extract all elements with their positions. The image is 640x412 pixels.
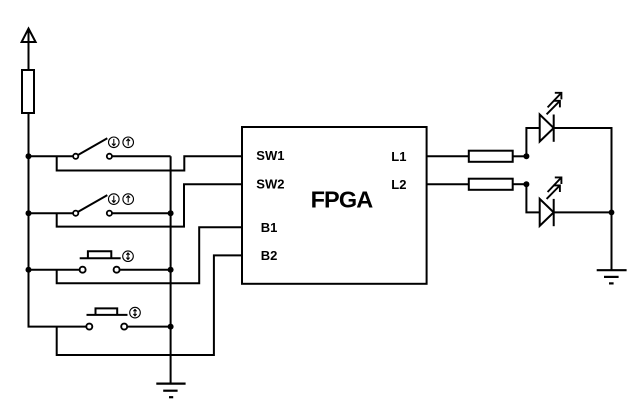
switch SW1 <box>73 138 112 159</box>
push button B1 <box>80 251 121 273</box>
led L1 diode <box>540 115 554 142</box>
node: LED2-right rail junction <box>609 210 615 216</box>
wire: LED2 anode dropper <box>526 184 539 212</box>
wire: LED1 anode riser <box>526 128 539 156</box>
svg-text:B1: B1 <box>261 220 278 235</box>
resistor R3 (L2 series) <box>469 179 513 190</box>
wire: B1 pin bypass <box>57 227 242 283</box>
icon: B2 press <box>130 307 141 318</box>
wire: L2 pin to resistor <box>427 183 469 185</box>
wire: ground rail <box>170 156 172 383</box>
svg-text:L1: L1 <box>391 149 406 164</box>
wire: SW2 row left <box>29 212 73 214</box>
svg-text:L2: L2 <box>391 177 406 192</box>
wire: SW1 output to ground rail <box>112 155 170 157</box>
icon: SW2 up position <box>123 194 134 205</box>
resistor R1 (pull-up) <box>22 70 34 113</box>
node: rail-B1 junction <box>26 267 32 273</box>
icon: LED1 emission arrows <box>547 93 562 115</box>
icon: SW1 down position <box>109 137 120 148</box>
node: LED2 anode junction <box>523 181 529 187</box>
icon: LED2 emission arrows <box>547 177 562 199</box>
svg-text:FPGA: FPGA <box>311 187 374 213</box>
wire: B2 output to ground rail <box>128 326 171 328</box>
wire: L1 pin to resistor <box>427 155 469 157</box>
node: rail-SW1 junction <box>26 153 32 159</box>
wire: resistor to LED2 anode <box>513 183 527 185</box>
icon: B1 press <box>123 251 134 262</box>
icon: SW1 up position <box>123 137 134 148</box>
node: rail-SW2 junction <box>26 210 32 216</box>
node: LED1 anode junction <box>523 153 529 159</box>
svg-text:SW1: SW1 <box>256 148 284 163</box>
icon: SW2 down position <box>109 194 120 205</box>
wire: LED1 cathode to right rail <box>554 128 612 270</box>
node: B2-ground rail junction <box>168 324 174 330</box>
wire: left rail <box>29 113 86 327</box>
wire: SW2 output to ground rail <box>112 212 170 214</box>
switch SW2 <box>73 195 112 216</box>
ground symbol right <box>597 270 627 283</box>
wire: LED2 cathode to right rail <box>554 211 612 213</box>
wire: B2 pin bypass <box>57 255 242 355</box>
svg-text:SW2: SW2 <box>256 177 284 192</box>
led L2 diode <box>540 199 554 226</box>
svg-text:B2: B2 <box>261 248 278 263</box>
node: SW2-ground rail junction <box>168 210 174 216</box>
node: B1-ground rail junction <box>168 267 174 273</box>
wire: resistor to LED1 anode <box>513 155 527 157</box>
wire: SW2 pin bypass <box>57 184 242 226</box>
vcc power symbol <box>22 29 36 71</box>
wire: SW1 pin bypass <box>57 156 242 170</box>
ground symbol left <box>156 384 185 398</box>
wire: B1 output to ground rail <box>120 269 170 271</box>
IC U1: FPGA box <box>242 127 427 284</box>
wire: B1 row left <box>29 269 80 271</box>
wire: SW1 row left <box>29 155 73 157</box>
push button B2 <box>86 308 127 329</box>
resistor R2 (L1 series resistor) <box>469 151 513 162</box>
